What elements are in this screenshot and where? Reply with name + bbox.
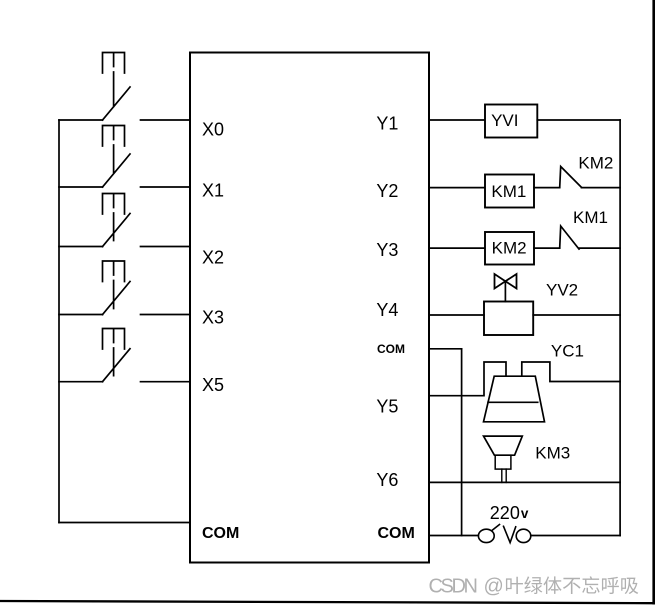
wire Y4 to YV2 bbox=[429, 314, 484, 316]
svg-text:COM: COM bbox=[202, 525, 239, 542]
pushbutton switch X1 bbox=[103, 126, 131, 188]
svg-text:X3: X3 bbox=[202, 307, 224, 327]
svg-text:CSDN: CSDN bbox=[429, 576, 479, 598]
svg-text:Y5: Y5 bbox=[376, 397, 398, 417]
svg-text:KM2: KM2 bbox=[492, 239, 527, 258]
pushbutton switch X0 bbox=[103, 53, 131, 121]
wire X1 switch to PLC input X1 bbox=[141, 186, 191, 188]
wire KM2 coil to KM1 contact bbox=[534, 247, 560, 249]
wire output COM bbox=[429, 348, 462, 350]
wire bus to X2 switch bbox=[59, 246, 103, 248]
svg-text:X1: X1 bbox=[202, 181, 224, 201]
wire Y5 to YC1 left terminal bbox=[429, 362, 506, 396]
svg-text:X2: X2 bbox=[202, 247, 224, 267]
pushbutton switch X5 bbox=[103, 329, 131, 382]
contactor coil KM2 box bbox=[485, 232, 534, 265]
plug symbol right pole bbox=[516, 529, 531, 542]
wire left vertical bus bbox=[58, 120, 60, 523]
wire X3 switch to PLC input X3 bbox=[141, 314, 191, 316]
bottom border line bbox=[0, 601, 655, 603]
svg-text:Y2: Y2 bbox=[376, 181, 398, 201]
solenoid valve coil YVI box bbox=[485, 105, 537, 138]
plug left pole tail bbox=[493, 525, 500, 531]
watermark CSDN bbox=[429, 576, 639, 598]
electromagnetic clutch YC1 body bbox=[484, 376, 545, 422]
wire bus to X0 switch bbox=[59, 119, 103, 121]
wire YV2 to right bus bbox=[533, 314, 620, 316]
svg-text:YC1: YC1 bbox=[551, 342, 584, 361]
wire COM to plug symbol bbox=[429, 535, 478, 537]
wire Y1 to YV1 bbox=[429, 119, 485, 121]
pushbutton switch X3 bbox=[103, 261, 131, 315]
wire bus to X3 switch bbox=[59, 314, 103, 316]
svg-text:X0: X0 bbox=[202, 120, 224, 140]
svg-text:KM2: KM2 bbox=[578, 154, 613, 173]
svg-text:Y6: Y6 bbox=[376, 470, 398, 490]
wire Y2 to KM1 coil bbox=[429, 187, 485, 189]
wire YV1 to right bus bbox=[537, 119, 620, 121]
wire X0 switch to PLC input X0 bbox=[141, 119, 191, 121]
pushbutton switch X2 bbox=[103, 194, 131, 247]
plug V contact bbox=[504, 526, 516, 542]
wire YC1 right terminal to right bus bbox=[522, 362, 620, 382]
plug symbol left pole bbox=[478, 529, 494, 542]
wire X2 switch to PLC input X2 bbox=[141, 246, 191, 248]
NC interlock contact KM1 bbox=[560, 226, 579, 249]
wire left COM to PLC bbox=[59, 522, 190, 524]
electromagnet KM3 horn body bbox=[484, 436, 523, 455]
contactor coil KM1 box bbox=[485, 175, 534, 208]
svg-text:KM1: KM1 bbox=[573, 208, 608, 227]
wire COM vertical drop bbox=[461, 349, 463, 536]
wire Y3 to KM2 coil bbox=[429, 247, 485, 249]
wire KM2 contact to right bus bbox=[582, 187, 621, 189]
wire X5 switch to PLC input X5 bbox=[141, 381, 191, 383]
KM3 base rect bbox=[495, 455, 511, 469]
svg-text:KM1: KM1 bbox=[491, 182, 526, 201]
PLC box U1 bbox=[190, 53, 429, 563]
svg-text:X5: X5 bbox=[202, 375, 224, 395]
wire plug to right bus bbox=[531, 535, 620, 537]
svg-text:@: @ bbox=[484, 576, 504, 598]
svg-text:220v: 220v bbox=[490, 503, 529, 523]
wire right vertical bus bbox=[619, 120, 621, 536]
svg-text:YVI: YVI bbox=[491, 111, 518, 130]
right border bar bbox=[652, 0, 655, 605]
wire Y6 to right bus bbox=[429, 481, 620, 483]
wire KM1 contact to right bus bbox=[579, 247, 620, 249]
KM3 stem leads bbox=[502, 469, 506, 482]
svg-text:COM: COM bbox=[378, 525, 415, 542]
wire KM1 coil to KM2 contact bbox=[534, 187, 560, 189]
svg-text:COM: COM bbox=[377, 342, 405, 356]
svg-text:YV2: YV2 bbox=[546, 281, 578, 300]
svg-text:Y1: Y1 bbox=[376, 114, 398, 134]
valve symbol of YV2 bbox=[495, 274, 517, 289]
svg-text:Y4: Y4 bbox=[376, 300, 398, 320]
YC1 inner line bbox=[488, 401, 538, 403]
NC interlock contact KM2 bbox=[560, 167, 582, 188]
solenoid valve YV2 body box bbox=[484, 302, 533, 336]
valve stem of YV2 bbox=[504, 281, 506, 301]
svg-text:KM3: KM3 bbox=[535, 444, 570, 463]
svg-text:Y3: Y3 bbox=[376, 240, 398, 260]
wire bus to X1 switch bbox=[59, 186, 103, 188]
wire bus to X5 switch bbox=[59, 381, 103, 383]
